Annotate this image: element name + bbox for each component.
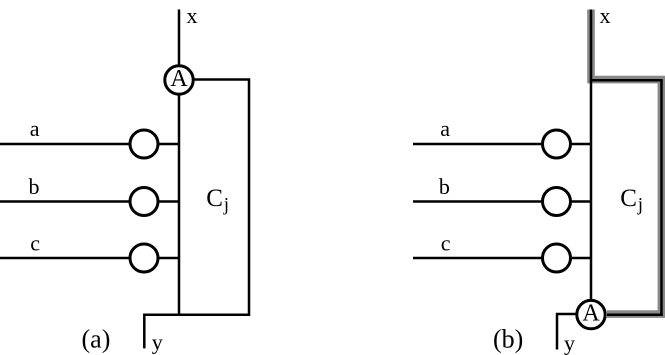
- contact circle on input c (a): [130, 244, 158, 272]
- svg-text:y: y: [564, 331, 575, 355]
- svg-text:b: b: [439, 174, 450, 199]
- svg-text:C: C: [620, 185, 637, 212]
- svg-text:c: c: [441, 231, 451, 256]
- wire x input over gray (b): [591, 10, 662, 315]
- svg-text:C: C: [206, 185, 223, 212]
- contact circle on input a (a): [130, 130, 158, 158]
- svg-text:A: A: [170, 66, 188, 92]
- highlighted thick gray path x to A (b): [591, 10, 661, 315]
- contact circle on input b (b): [543, 188, 571, 216]
- wire bus vertical (b): [590, 80, 593, 301]
- svg-text:x: x: [600, 3, 611, 28]
- wire input c (a): [0, 257, 179, 260]
- wire bottom rail and y stub (a): [144, 315, 250, 349]
- contact circle on input c (b): [543, 244, 571, 272]
- wire input a (b): [413, 143, 591, 146]
- svg-text:(b): (b): [493, 325, 523, 354]
- wire input b (a): [0, 200, 179, 203]
- ammeter A circle (b): [577, 300, 605, 328]
- svg-text:j: j: [223, 195, 229, 216]
- wire input b (b): [413, 200, 591, 203]
- wire bus vertical (a): [178, 80, 181, 315]
- wire y stub (b): [557, 314, 576, 350]
- wire input a (a): [0, 143, 179, 146]
- wire top and right side of cell Cj (a): [179, 80, 249, 315]
- svg-text:(a): (a): [82, 325, 111, 354]
- svg-text:b: b: [29, 174, 40, 199]
- svg-text:y: y: [152, 330, 163, 355]
- svg-text:j: j: [637, 195, 643, 216]
- ammeter A circle (a): [165, 66, 193, 94]
- svg-text:c: c: [30, 231, 40, 256]
- wire x input (a): [178, 10, 181, 81]
- contact circle on input b (a): [130, 188, 158, 216]
- contact circle on input a (b): [543, 130, 571, 158]
- svg-text:a: a: [440, 116, 450, 141]
- svg-text:x: x: [187, 3, 198, 28]
- wire input c (b): [413, 257, 591, 260]
- svg-text:A: A: [582, 301, 600, 327]
- svg-text:a: a: [30, 116, 40, 141]
